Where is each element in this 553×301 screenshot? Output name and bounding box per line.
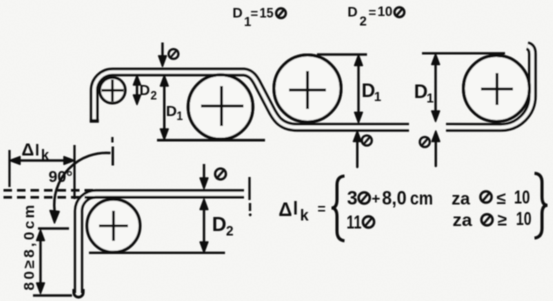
svg-text:l: l [293,199,298,219]
svg-text:za: za [453,210,473,230]
svg-text:1: 1 [177,111,184,123]
svg-text:1: 1 [374,89,381,104]
dim dia (above bottom bar) [200,164,226,189]
svg-text:D: D [233,5,243,21]
roller small cross [102,80,124,102]
svg-text:l: l [35,142,39,159]
svg-text:+: + [372,191,381,208]
formula row 2: 11dia [347,213,375,233]
roller D1 first [188,75,253,140]
dim delta-lk arrow [10,137,113,199]
svg-text:cm: cm [410,189,433,209]
roller D1 third cross [481,73,513,105]
svg-text:10: 10 [516,209,532,229]
roller small D2 (top left) [100,78,126,104]
svg-text:=: = [318,201,326,217]
svg-text:Δ: Δ [279,200,293,221]
svg-text:3: 3 [347,189,358,210]
dim D2 (small roller) [133,76,157,105]
dashed original bar position [4,190,94,197]
baseline under bottom roller [89,252,225,254]
roller D1 first cross [201,86,244,126]
baseline under first roller [157,139,265,142]
svg-text:D: D [348,4,358,20]
dim arrow dia (top-left, above bar) [159,43,179,67]
svg-text:10: 10 [514,187,530,207]
svg-text:80≥8,0cm: 80≥8,0cm [21,202,38,290]
svg-text:11: 11 [347,213,362,233]
svg-text:D: D [166,103,177,120]
formula delta-lk = [279,199,326,225]
svg-text:1: 1 [427,91,434,106]
svg-text:≤: ≤ [497,189,506,208]
dim D1 (third roller) [414,53,505,121]
formula right brace [535,173,548,238]
svg-text:=: = [369,5,377,20]
roller outlines restroke [188,55,529,139]
svg-text:2: 2 [360,14,367,29]
svg-text:=: = [251,6,259,21]
svg-text:2: 2 [151,91,157,103]
header label D1=15dia [233,5,286,29]
dim 80 arrow (leg length) [33,229,72,296]
bar break marks (right end) [248,177,250,200]
bar bottom end cap [74,289,83,297]
formula row 2: za dia>=10 [453,209,532,230]
roller D2 (bend) [87,199,140,252]
roller D2 cross [99,211,128,241]
svg-text:k: k [300,208,309,225]
formula left brace [332,176,345,241]
svg-text:≥: ≥ [498,210,507,229]
formula row 1: za dia<=10 [452,187,531,208]
90deg arc with arrow [49,153,111,223]
svg-text:90°: 90° [49,169,73,186]
svg-text:Δ: Δ [22,139,35,159]
dim dia (below third roller) [420,131,440,166]
bar left hook end cap [90,119,99,123]
svg-text:D: D [140,83,150,99]
svg-text:za: za [452,188,471,208]
svg-text:8,0: 8,0 [382,189,407,210]
roller D1 second cross [289,71,326,109]
dim D2 (bottom roller) [200,199,233,253]
dim D1 (second roller) [317,55,381,123]
dim D1 (first roller) [160,76,183,140]
roller D1 third [464,56,530,122]
bar (top drawing, right part with hook up) [446,46,532,128]
bar (top drawing, left part with hook over small roller and S down) [94,72,409,127]
svg-text:D: D [212,214,226,236]
svg-text:2: 2 [226,224,234,239]
dim delta-lk text [22,139,51,164]
svg-text:15: 15 [260,5,274,20]
roller D1 second [274,55,341,122]
formula row 1: 3dia+8,0cm [347,189,433,210]
bent bar (90 deg) [79,194,245,293]
dim dia (below second roller) [353,131,371,167]
header label D2=10dia [348,4,405,29]
svg-text:10: 10 [378,4,393,19]
